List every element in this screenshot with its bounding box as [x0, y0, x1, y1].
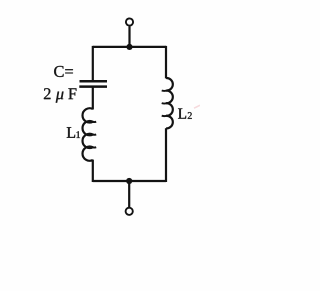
inductor L2 (4 loops bulging right): [166, 78, 173, 128]
wire (top rail): [93, 46, 166, 48]
wire (left branch upper: rail to capacitor): [92, 46, 94, 81]
wire (capacitor to L1): [92, 87, 94, 110]
wire (top terminal stub): [128, 26, 130, 47]
inductor label subscript "1" of L1: [76, 131, 80, 138]
inductor label "L" of L1: [67, 127, 75, 137]
terminal T1 (top open circle): [126, 18, 133, 25]
capacitor label "C=": [54, 66, 73, 77]
inductor label subscript "2" of L2: [188, 112, 192, 119]
wire (bottom terminal stub): [128, 181, 130, 207]
capacitor value "mu" (italic): [56, 92, 64, 103]
inductor L1 (4 loops bulging left): [83, 108, 93, 160]
wire (right branch upper: rail to L2): [165, 46, 167, 79]
inductor L2 knot tails: [162, 90, 168, 116]
wire (L2 to bottom rail): [165, 128, 167, 182]
node A (top junction dot): [126, 44, 132, 50]
capacitor C1 plates: [79, 81, 107, 86]
wire (L1 to bottom rail): [92, 160, 94, 182]
capacitor value unit "F": [68, 88, 76, 99]
node B (bottom junction dot): [126, 178, 132, 184]
capacitor value digit "2": [44, 88, 51, 99]
wire (bottom rail): [93, 180, 166, 182]
inductor L1 knot tails: [91, 121, 96, 147]
terminal T2 (bottom open circle): [126, 208, 133, 215]
stray pink scan mark: [194, 105, 200, 108]
inductor label "L" of L2: [178, 108, 186, 118]
